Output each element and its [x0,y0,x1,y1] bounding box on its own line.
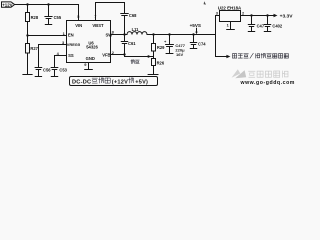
wire: VREG5 net pin 3 [39,45,67,68]
ground for C47 [248,31,254,33]
svg-text:U22 EH18A: U22 EH18A [218,5,242,10]
node: C477 top [168,33,170,35]
wire: +12V top rail [15,5,79,21]
svg-text:C53: C53 [59,67,67,72]
arrow: +5VS points to rail [195,28,197,34]
ground for C402 [264,31,270,33]
pin 7 VBST stub [95,3,97,21]
capacitor C55 [45,5,52,25]
resistor R29 [152,35,156,57]
wire: SS net pin 4 [55,56,67,68]
resistor R26 [152,57,156,75]
svg-text:C56: C56 [43,67,51,72]
node: C402 on output [266,14,268,16]
ground for pin 9 [85,69,93,71]
caption box DC-DC converter [70,77,158,86]
svg-text:SS: SS [68,53,74,58]
pin 1 stub of U22 [230,22,232,30]
wire: EN net to pin 1 [28,35,67,37]
wire: +5V output rail [147,34,216,36]
ground for C477 [166,53,173,55]
+12V input flag [2,2,15,7]
svg-text:C61: C61 [128,41,136,46]
svg-text:VBST: VBST [92,23,104,28]
resistor R27 [26,36,30,75]
svg-text:www.go-gddq.com: www.go-gddq.com [240,80,295,86]
node: C55 on top rail [47,3,49,5]
watermark site name [249,71,288,77]
wire: VFB pin 2 stub [111,54,125,56]
ground for C55 [45,24,51,26]
node: VFB junction [123,53,125,55]
ground for R27 [23,74,32,76]
node: C74 top [192,33,194,35]
capacitor C477 electrolytic [166,35,174,54]
wire: +3.3V output rail [241,15,275,17]
svg-text:EN: EN [68,33,74,38]
node: R29 top [152,33,154,35]
svg-text:7: 7 [94,14,96,19]
pin 8 SW stub wire [111,34,128,36]
scan artifact speck [204,1,206,4]
node: R28 on top rail [26,3,28,5]
op-amp U6 buck regulator IC box [67,21,111,63]
arrow: to standby control [226,55,230,58]
svg-text:+5V): +5V) [135,79,148,85]
pin 9 GND pad stub [88,63,90,70]
svg-text:(+12V: (+12V [112,79,128,85]
svg-text:C402: C402 [272,23,283,28]
svg-text:R28: R28 [31,15,39,20]
wire: pin 3 stub [216,15,220,17]
ground for C56 [35,76,41,78]
svg-text:54326: 54326 [86,45,98,50]
capacitor C74 [190,35,196,49]
label 通往开/待机控制电路 [232,53,288,58]
svg-text:+5VS: +5VS [190,23,201,28]
svg-text:R26: R26 [157,61,165,66]
capacitor C47 [248,16,254,32]
svg-text:C74: C74 [198,42,206,47]
node: FB rail end [147,55,149,57]
svg-text:R29: R29 [157,45,165,50]
svg-text:VIN: VIN [75,23,82,28]
ground for U22 pin 1 [227,29,235,31]
ground for R26 [148,74,158,76]
wire: FB rail [125,56,154,58]
wire: rail to U22 pin 3 and standby branch [216,16,227,57]
capacitor C68 bootstrap [121,14,128,35]
wire: VBST bootstrap loop [96,3,125,14]
capacitor C53 [51,68,58,77]
svg-text:+3.3V: +3.3V [280,13,294,19]
svg-text:DC-DC: DC-DC [72,79,91,85]
svg-text:+12V: +12V [2,2,12,7]
resistor R28 [26,5,30,36]
node: SW junction [123,33,125,35]
ground for C53 [51,76,57,78]
label 稳压 [131,60,140,64]
ground for C74 [190,48,196,50]
svg-text:C55: C55 [54,15,62,20]
capacitor C61 feedforward [121,35,127,57]
caption text [72,78,148,86]
inductor L11 [127,32,147,35]
svg-text:VREG5: VREG5 [67,42,81,47]
node: C47 on output [250,14,252,16]
pin 5 VIN stub [78,5,80,21]
capacitor C56 [35,68,42,77]
svg-text:GND: GND [86,56,95,61]
watermark logo [232,69,247,78]
svg-text:16V: 16V [176,52,183,57]
svg-text:L11: L11 [132,27,140,32]
arrow: +3.3V output [274,14,278,17]
svg-text:C68: C68 [129,13,137,18]
regulator U22 box [220,11,241,22]
svg-text:R27: R27 [30,46,38,51]
svg-text:VFB: VFB [102,53,110,58]
capacitor C402 [264,16,270,32]
node: EN junction [26,34,28,36]
svg-text:C47: C47 [257,23,265,28]
